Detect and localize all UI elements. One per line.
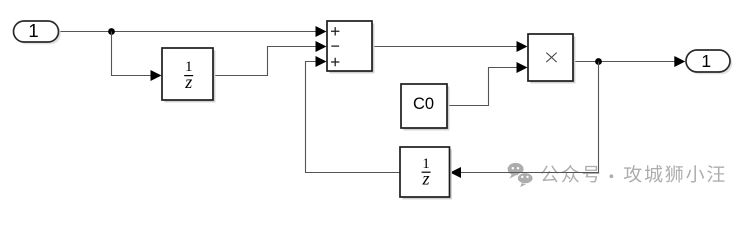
Unit Delay1 block bbox=[162, 48, 213, 100]
svg-text:C0: C0 bbox=[413, 95, 434, 113]
svg-text:z: z bbox=[421, 168, 429, 188]
wire C0 output to Product input 2 bbox=[448, 68, 517, 106]
Product block bbox=[528, 34, 573, 81]
wire Sum output to Product input 1 bbox=[373, 46, 517, 48]
Inport 1 oval bbox=[14, 21, 59, 42]
arrowhead into Product input 2 bbox=[517, 62, 528, 73]
watermark logo back bubble eyes bbox=[512, 167, 514, 169]
wire branch down to Unit Delay1 input bbox=[112, 32, 152, 76]
Unit Delay2 block shadow bbox=[402, 149, 452, 199]
branch node dot at Product output bbox=[595, 58, 602, 65]
watermark logo front chat bubble bbox=[517, 173, 533, 184]
Outport 1 oval shadow bbox=[688, 52, 732, 74]
svg-text:z: z bbox=[184, 72, 192, 92]
watermark text: 公众号 攻城狮小汪 as vector glyph paths bbox=[541, 165, 725, 183]
C0 block bbox=[401, 84, 447, 128]
Inport 1 oval shadow bbox=[16, 23, 61, 44]
arrowhead into Sum input 1 bbox=[316, 26, 327, 37]
arrowhead into Product input 1 bbox=[517, 41, 528, 52]
svg-text:1: 1 bbox=[28, 20, 38, 41]
feedback wire from Product output down to Unit Delay2 input bbox=[460, 62, 599, 173]
svg-text:1: 1 bbox=[701, 51, 711, 71]
wire Unit Delay2 output to Sum input 3 bbox=[306, 62, 400, 173]
wire Product output to Outport 1 bbox=[574, 61, 675, 63]
arrowhead into Sum input 3 bbox=[316, 56, 327, 67]
Product block shadow bbox=[530, 36, 575, 83]
Unit Delay2 fraction bar bbox=[422, 171, 431, 173]
Sum sign plus 2 bbox=[331, 58, 339, 66]
wire Unit Delay1 output to Sum input 2 bbox=[214, 47, 316, 76]
watermark logo front bubble tail bbox=[520, 183, 526, 187]
arrowhead into Unit Delay1 bbox=[151, 70, 162, 81]
Unit Delay2 block bbox=[400, 147, 450, 197]
watermark separator middle dot bbox=[610, 174, 614, 178]
Unit Delay1 block shadow bbox=[164, 50, 215, 102]
Product times symbol bbox=[546, 53, 556, 63]
arrowhead into Unit Delay2 (points left) bbox=[450, 167, 461, 178]
watermark logo front bubble eyes bbox=[521, 176, 523, 178]
Sum sign minus bbox=[331, 45, 339, 47]
arrowhead into Sum input 2 bbox=[316, 41, 327, 52]
wire from Inport 1 to Sum input 1 bbox=[59, 31, 318, 33]
Sum sign plus 1 bbox=[331, 27, 339, 35]
Sum block bbox=[327, 21, 372, 71]
watermark logo back chat bubble bbox=[508, 163, 524, 179]
branch node dot on input wire bbox=[108, 28, 115, 35]
C0 block shadow bbox=[403, 86, 449, 130]
arrowhead into Outport 1 bbox=[674, 56, 685, 67]
Unit Delay1 fraction bar bbox=[184, 75, 193, 77]
Outport 1 oval bbox=[686, 50, 730, 72]
Sum block shadow bbox=[329, 23, 374, 73]
